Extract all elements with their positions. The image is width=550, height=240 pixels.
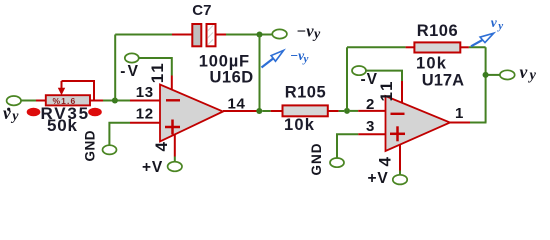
junction node E — [483, 72, 489, 78]
node vy terminal — [500, 70, 515, 79]
junction node D — [344, 108, 350, 114]
svg-text:11: 11 — [377, 80, 396, 102]
svg-text:C7: C7 — [192, 2, 211, 19]
svg-text:13: 13 — [136, 84, 154, 101]
wire C7 right — [216, 34, 274, 36]
power -V2 terminal — [352, 66, 366, 75]
svg-text:+V: +V — [142, 159, 163, 176]
svg-text:−v: −v — [296, 22, 314, 41]
svg-text:12: 12 — [136, 106, 154, 123]
svg-text:R106: R106 — [417, 22, 458, 40]
potentiometer RV35 wiper arrow — [58, 81, 65, 95]
probe arrow blue 2 — [471, 33, 494, 46]
pin 4 wire U16D — [174, 135, 176, 163]
power +V2 terminal — [393, 175, 407, 185]
svg-text:y: y — [302, 53, 309, 65]
wire feedback R106 left vertical — [346, 47, 348, 111]
wire vertical junction B to output — [259, 35, 261, 112]
pin 4 wire U17A — [399, 144, 401, 175]
svg-text:1: 1 — [455, 105, 463, 122]
svg-text:U17A: U17A — [422, 72, 464, 90]
svg-text:4: 4 — [376, 157, 395, 167]
svg-text:4: 4 — [152, 142, 171, 152]
svg-text:y: y — [528, 68, 537, 84]
resistor R105 — [283, 105, 328, 116]
svg-text:GND: GND — [309, 143, 324, 176]
wire right vertical to output — [485, 47, 487, 122]
label RV35 with red dots — [27, 104, 102, 123]
svg-text:2: 2 — [366, 96, 374, 113]
svg-text:50k: 50k — [47, 116, 78, 135]
wire output U17A — [450, 122, 487, 124]
wire feedback vertical left — [114, 35, 116, 101]
resistor R106 — [414, 42, 460, 52]
wire R105 to pin 2 — [328, 110, 386, 112]
svg-text:U16D: U16D — [210, 69, 254, 87]
wire RV35 to pin13 — [90, 100, 160, 102]
label vy-dot input — [3, 103, 19, 124]
wire top to C7 — [115, 34, 192, 36]
svg-text:-V: -V — [361, 71, 379, 88]
junction node C — [256, 108, 262, 114]
power +V1 terminal — [168, 162, 182, 172]
svg-text:v: v — [491, 15, 498, 30]
wire pin 3 from GND2 — [337, 134, 386, 158]
label vy blue — [491, 15, 504, 32]
wire to R106 — [347, 46, 414, 48]
svg-text:-V: -V — [120, 63, 140, 80]
svg-text:11: 11 — [148, 61, 167, 83]
svg-text:+V: +V — [368, 170, 389, 187]
junction node B — [256, 31, 262, 37]
svg-text:R105: R105 — [285, 84, 326, 102]
wire junction E to vy terminal — [489, 74, 501, 76]
svg-text:v: v — [520, 62, 528, 82]
svg-text:10k: 10k — [416, 54, 447, 72]
node -vy terminal — [272, 29, 287, 38]
svg-text:3: 3 — [366, 118, 374, 135]
svg-text:y: y — [312, 27, 321, 42]
wire RV35 wiper loop — [62, 81, 95, 101]
svg-text:v: v — [3, 103, 11, 123]
svg-text:10k: 10k — [284, 116, 315, 134]
wire -V1 to pin 11 — [138, 58, 172, 90]
wire input to RV35 — [21, 100, 46, 102]
op-amp U17A — [386, 96, 451, 151]
svg-text:y: y — [10, 109, 19, 124]
wire R106 right — [460, 46, 485, 48]
power -V1 terminal — [125, 53, 139, 62]
wire pin 12 from GND — [109, 123, 160, 146]
node IN terminal — [7, 96, 21, 105]
potentiometer RV35 body — [46, 95, 90, 106]
op-amp U16D — [160, 85, 223, 142]
svg-text:GND: GND — [83, 130, 98, 162]
label vy dark — [520, 62, 537, 83]
junction node A — [112, 97, 118, 103]
label -vy blue — [290, 48, 309, 65]
svg-text:y: y — [496, 20, 503, 32]
svg-text:100µF: 100µF — [199, 52, 250, 70]
svg-text:14: 14 — [228, 96, 246, 113]
capacitor C7 — [192, 24, 215, 46]
label -vy dark — [296, 22, 321, 42]
probe arrow blue 1 — [262, 50, 284, 67]
ground GND2 terminal — [330, 158, 344, 167]
ground GND1 terminal — [103, 145, 117, 154]
wire -V2 to pin 11 — [365, 71, 402, 103]
wire output U16D — [223, 110, 283, 112]
